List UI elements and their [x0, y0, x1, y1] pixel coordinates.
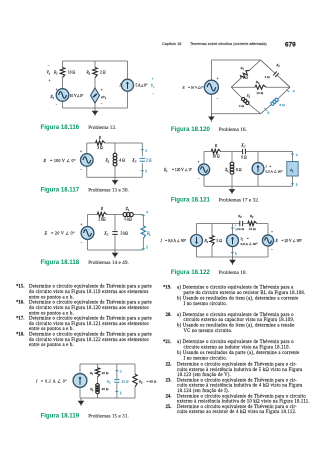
svg-text:+: + — [271, 230, 273, 234]
svg-text:+: + — [49, 79, 51, 83]
svg-text:22.: 22. — [166, 363, 172, 368]
svg-text:+: + — [152, 77, 154, 81]
svg-text:−: − — [101, 102, 103, 106]
svg-text:E1: E1 — [50, 95, 55, 100]
svg-text:+: + — [217, 77, 219, 81]
svg-text:6 Ω: 6 Ω — [241, 156, 247, 160]
svg-text:parte do circuito externo ao r: parte do circuito externo ao resistor RL… — [184, 291, 306, 296]
svg-text:2 kΩ: 2 kΩ — [98, 218, 106, 222]
svg-text:=: = — [247, 236, 249, 240]
svg-text:cuito externo à resistência in: cuito externo à resistência indutiva de … — [177, 368, 303, 373]
svg-text:a: a — [145, 149, 147, 153]
svg-text:Determine o circuito equivalen: Determine o circuito equivalente de Thév… — [177, 378, 297, 383]
svg-text:Vs: Vs — [151, 84, 154, 89]
svg-text:+: + — [56, 88, 58, 92]
svg-text:4 Ω: 4 Ω — [119, 158, 125, 162]
svg-text:23.: 23. — [166, 378, 172, 383]
svg-text:μVx: μVx — [101, 95, 107, 100]
svg-text:RL: RL — [146, 232, 151, 237]
svg-text:679: 679 — [285, 41, 296, 48]
svg-text:= 20 V ∠ 90°: = 20 V ∠ 90° — [282, 239, 303, 243]
svg-text:Problema 18.: Problema 18. — [219, 270, 247, 276]
svg-text:b: b — [145, 170, 147, 174]
svg-text:Determine o circuito equivalen: Determine o circuito equivalente de Thév… — [29, 301, 152, 306]
svg-text:18.124 (em função de I).: 18.124 (em função de I). — [177, 389, 229, 394]
svg-text:3 kΩ: 3 kΩ — [121, 232, 129, 236]
svg-text:Determine o circuito equivalen: Determine o circuito equivalente de Thév… — [29, 285, 152, 290]
svg-text:Figura 18.121: Figura 18.121 — [171, 197, 211, 204]
svg-text:XL: XL — [89, 387, 94, 392]
svg-text:XC: XC — [237, 214, 242, 219]
svg-text:do circuito visto na Figura 18: do circuito visto na Figura 18.121 exter… — [29, 322, 149, 327]
svg-text:+: + — [198, 160, 200, 164]
svg-text:XL: XL — [105, 158, 110, 163]
svg-text:4 Ω: 4 Ω — [239, 104, 245, 108]
svg-text:2 Ω: 2 Ω — [243, 76, 249, 80]
svg-text:*17.: *17. — [16, 317, 24, 322]
svg-text:b) Usando os resultados do ite: b) Usando os resultados do item (a), det… — [177, 324, 295, 329]
svg-text:−: − — [81, 241, 83, 245]
svg-text:10 Ω: 10 Ω — [237, 227, 244, 231]
svg-text:do circuito visto na Figura 18: do circuito visto na Figura 18.119 exter… — [29, 290, 149, 295]
svg-text:b: b — [235, 252, 237, 256]
svg-text:Figura 18.117: Figura 18.117 — [41, 187, 80, 194]
svg-text:−: − — [217, 97, 219, 101]
svg-text:*18.: *18. — [16, 333, 24, 338]
svg-text:a) Determine o circuito equiva: a) Determine o circuito equivalente de T… — [177, 340, 294, 345]
svg-text:10 Ω: 10 Ω — [212, 155, 220, 159]
svg-text:XL: XL — [224, 168, 229, 173]
svg-text:Figura 18.116: Figura 18.116 — [41, 124, 80, 131]
svg-text:+: + — [80, 150, 82, 154]
svg-text:8 Ω: 8 Ω — [236, 168, 242, 172]
svg-text:a: a — [293, 89, 295, 93]
svg-text:Determine o circuito equivalen: Determine o circuito equivalente de Thév… — [177, 405, 297, 410]
svg-text:a: a — [146, 210, 148, 214]
svg-text:4 Ω: 4 Ω — [265, 75, 271, 79]
svg-text:+: + — [101, 88, 103, 92]
svg-text:10 Ω: 10 Ω — [256, 91, 263, 95]
svg-text:do circuito visto na Figura 18: do circuito visto na Figura 18.122 exter… — [29, 338, 149, 343]
svg-text:a: a — [296, 153, 298, 157]
svg-text:−: − — [152, 92, 154, 96]
svg-text:Determine o circuito equivalen: Determine o circuito equivalente de Thév… — [177, 363, 297, 368]
svg-text:VC no mesmo circuito.: VC no mesmo circuito. — [184, 329, 233, 334]
svg-text:XL: XL — [125, 207, 130, 212]
svg-text:*15.: *15. — [16, 285, 24, 290]
svg-text:= 20 V ∠ 0°: = 20 V ∠ 0° — [51, 231, 75, 236]
svg-text:= 68 Ω: = 68 Ω — [147, 379, 157, 383]
svg-text:Problemas 13 e 30.: Problemas 13 e 30. — [88, 188, 129, 194]
svg-text:8 Ω: 8 Ω — [280, 103, 286, 107]
svg-text:R1: R1 — [89, 371, 93, 376]
svg-text:XC: XC — [106, 379, 111, 384]
svg-text:Figura 18.119: Figura 18.119 — [41, 413, 80, 420]
svg-text:R1: R1 — [240, 66, 244, 71]
svg-text:10 Ω: 10 Ω — [249, 227, 256, 231]
svg-text:Determine o circuito equivalen: Determine o circuito equivalente de Thév… — [29, 317, 152, 322]
svg-text:= 120 V ∠ 0°: = 120 V ∠ 0° — [172, 168, 192, 172]
svg-text:a) Determine o circuito equiva: a) Determine o circuito equivalente de T… — [177, 313, 294, 318]
svg-text:XC: XC — [240, 144, 245, 149]
svg-text:cuito externo ao resistor de 4: cuito externo ao resistor de 4 kΩ visto … — [177, 410, 297, 415]
svg-text:entre os pontos a e b.: entre os pontos a e b. — [29, 295, 74, 300]
svg-text:*19.: *19. — [163, 286, 171, 291]
svg-text:E: E — [43, 158, 47, 163]
svg-text:6 kΩ: 6 kΩ — [125, 218, 133, 222]
svg-text:2 Ω: 2 Ω — [146, 158, 152, 162]
svg-text:R2: R2 — [249, 214, 254, 219]
svg-text:b) Usando os resultados da par: b) Usando os resultados da parte (a), de… — [177, 351, 299, 356]
svg-text:5 A∠0°: 5 A∠0° — [136, 84, 148, 88]
svg-text:Figura 18.120: Figura 18.120 — [171, 126, 211, 133]
svg-text:cuito externo à resistência in: cuito externo à resistência indutiva de … — [177, 384, 303, 389]
svg-text:XC: XC — [131, 158, 136, 163]
svg-text:externo à resistência indutiva: externo à resistência indutiva de 10 kΩ … — [177, 400, 310, 405]
svg-text:Problema 16.: Problema 16. — [219, 127, 247, 133]
svg-text:24.: 24. — [166, 394, 172, 399]
svg-text:+: + — [81, 223, 83, 227]
svg-text:3 Ω: 3 Ω — [97, 146, 103, 150]
svg-text:10 Ω: 10 Ω — [68, 71, 76, 75]
svg-text:E: E — [44, 231, 48, 236]
svg-text:2 Ω: 2 Ω — [100, 71, 106, 75]
svg-text:b: b — [146, 246, 148, 250]
svg-text:20 Ω: 20 Ω — [102, 387, 109, 391]
svg-text:entre os pontos a e b.: entre os pontos a e b. — [29, 327, 74, 332]
svg-text:XL: XL — [246, 94, 251, 99]
svg-text:Determine o circuito equivalen: Determine o circuito equivalente de Thév… — [29, 333, 152, 338]
svg-text:I no mesmo circuito.: I no mesmo circuito. — [184, 302, 228, 307]
svg-text:Problemas 17 e 32.: Problemas 17 e 32. — [219, 198, 260, 204]
svg-text:R2: R2 — [138, 379, 143, 384]
svg-text:20 Ω: 20 Ω — [102, 371, 109, 375]
svg-text:R2: R2 — [255, 80, 260, 85]
svg-text:Figura 18.118: Figura 18.118 — [41, 259, 80, 266]
svg-text:25.: 25. — [166, 405, 172, 410]
svg-text:R2: R2 — [86, 71, 91, 76]
svg-text:entre os pontos a e b.: entre os pontos a e b. — [29, 343, 74, 348]
svg-text:entre os pontos a e b.: entre os pontos a e b. — [29, 311, 74, 316]
svg-text:= 100 V ∠ 0°: = 100 V ∠ 0° — [50, 158, 76, 163]
svg-text:b: b — [296, 183, 298, 187]
svg-text:Figura 18.122: Figura 18.122 — [171, 269, 211, 276]
svg-text:18.123 (em função de V).: 18.123 (em função de V). — [177, 373, 231, 378]
svg-text:Capítulo 18: Capítulo 18 — [162, 42, 181, 46]
svg-text:R1: R1 — [53, 71, 58, 76]
svg-text:−: − — [80, 168, 82, 172]
svg-text:Es: Es — [163, 168, 167, 173]
svg-text:XC: XC — [103, 232, 108, 237]
svg-text:20.: 20. — [166, 313, 172, 318]
svg-text:Problema 12.: Problema 12. — [88, 125, 116, 131]
svg-text:Problemas 14 e 49.: Problemas 14 e 49. — [88, 260, 129, 266]
svg-text:−: − — [56, 103, 58, 107]
svg-text:5 Ω: 5 Ω — [217, 239, 223, 243]
svg-text:Problemas 15 e 31.: Problemas 15 e 31. — [88, 414, 129, 420]
svg-text:−: − — [198, 177, 200, 181]
svg-text:10 V∠0°: 10 V∠0° — [70, 94, 84, 98]
svg-text:Determine o circuito equivalen: Determine o circuito equivalente de Thév… — [177, 394, 306, 399]
svg-text:= 50 V∠0°: = 50 V∠0° — [188, 86, 204, 90]
svg-text:b) Usando os resultados do ite: b) Usando os resultados do item (a), det… — [177, 296, 298, 301]
svg-text:XC: XC — [275, 63, 280, 68]
svg-text:−: − — [48, 64, 50, 68]
svg-text:32 Ω: 32 Ω — [122, 379, 129, 383]
svg-text:*16.: *16. — [16, 301, 24, 306]
svg-text:do circuito visto na Figura 18: do circuito visto na Figura 18.120 exter… — [29, 306, 149, 311]
svg-text:b: b — [268, 111, 270, 115]
svg-text:R1: R1 — [204, 239, 209, 244]
svg-text:I no mesmo circuito.: I no mesmo circuito. — [184, 356, 228, 361]
svg-text:=: = — [269, 164, 271, 168]
svg-text:b: b — [120, 392, 122, 396]
svg-text:Teoremas sobre circuitos (corr: Teoremas sobre circuitos (corrente alter… — [190, 42, 267, 46]
svg-text:a: a — [120, 369, 122, 373]
svg-text:circuito externo ao indutor vi: circuito externo ao indutor visto na Fig… — [184, 346, 291, 351]
svg-text:a) Determine o circuito equiva: a) Determine o circuito equivalente de T… — [177, 286, 294, 291]
svg-text:*21.: *21. — [163, 340, 171, 345]
svg-text:circuito externo ao capacitor: circuito externo ao capacitor visto na F… — [184, 318, 295, 323]
svg-text:−: − — [271, 248, 273, 252]
